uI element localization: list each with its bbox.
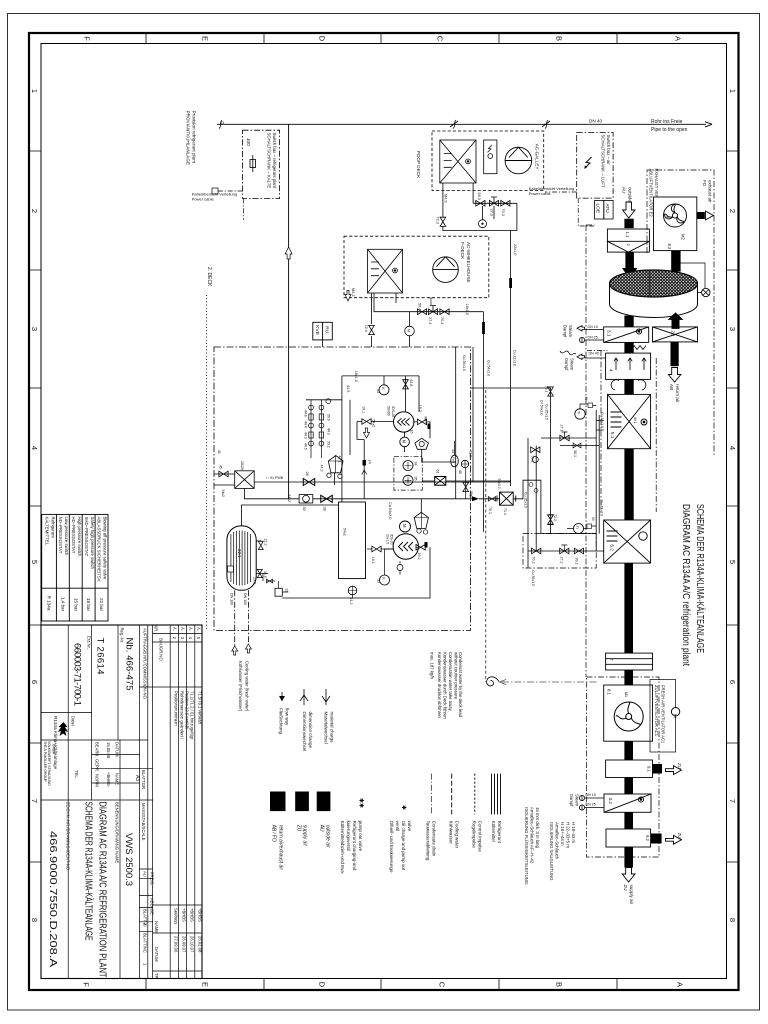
svg-text:16: 16 <box>410 430 414 434</box>
legend: cooling water dashed <box>451 774 453 815</box>
filter box 1.1 <box>607 229 649 252</box>
valve 70.3 <box>501 201 510 207</box>
valve 28 <box>303 479 315 486</box>
svg-text:8.1: 8.1 <box>607 689 612 695</box>
galley el. heater rect <box>484 140 497 174</box>
svg-text:Kältemittel: Kältemittel <box>491 821 496 842</box>
svg-text:AC-GALLEY: AC-GALLEY <box>535 144 540 170</box>
svg-text:Condensat water by the deck le: Condensat water by the deck lead <box>458 652 463 718</box>
svg-text:72.2: 72.2 <box>553 514 557 521</box>
svg-text:1: 1 <box>728 89 737 93</box>
legend: control impulse dashed <box>474 774 476 815</box>
svg-text:NAME: NAME <box>154 921 159 933</box>
svg-text:50: 50 <box>469 495 473 499</box>
svg-text:7: 7 <box>609 658 614 661</box>
5.2 feed group dash-dot boundary <box>523 534 596 569</box>
AB return hollow arrow <box>668 368 681 383</box>
svg-text:41.2: 41.2 <box>349 598 353 605</box>
svg-text:22.2: 22.2 <box>264 539 268 546</box>
svg-text:pump out valve: pump out valve <box>358 821 363 852</box>
svg-text:TI: TI <box>577 411 581 414</box>
svg-text:23.6: 23.6 <box>253 577 257 584</box>
svg-text:C: C <box>438 982 447 988</box>
duct below 2.2 <box>671 342 679 366</box>
svg-text:28: 28 <box>305 472 309 476</box>
svg-text:71.1: 71.1 <box>503 508 507 515</box>
valve 59.4 <box>417 309 426 315</box>
legend: refrigerant 4-line symbol <box>492 774 501 815</box>
svg-text:return air∕exhaust air: return air∕exhaust air <box>278 825 284 871</box>
svg-text:70.4: 70.4 <box>440 317 444 324</box>
svg-text:18x1,0: 18x1,0 <box>465 304 469 315</box>
duct 5.1 to 5.2 <box>624 449 633 520</box>
svg-text:7: 7 <box>728 799 737 803</box>
svg-text:Tauwasserableitung: Tauwasserableitung <box>426 821 431 861</box>
svg-text:15 bar: 15 bar <box>73 598 78 611</box>
svg-text:16 mm dick, 3 m lang: 16 mm dick, 3 m lang <box>535 807 540 848</box>
svg-text:5: 5 <box>30 560 39 564</box>
svg-text:SCHEMA DER R134A-KLIMA-KÄLTEAN: SCHEMA DER R134A-KLIMA-KÄLTEANLAGE <box>694 504 706 653</box>
svg-text:Cu 54x2,0: Cu 54x2,0 <box>388 502 392 519</box>
fan E2 3-blade <box>664 204 687 227</box>
svg-text:BLATT/NC: BLATT/NC <box>143 933 148 953</box>
svg-text:BEARB.: BEARB. <box>95 742 100 757</box>
pump 30 <box>299 495 313 503</box>
svg-text:72.3: 72.3 <box>436 217 440 224</box>
revision rows content <box>143 626 203 979</box>
svg-text:1.1: 1.1 <box>625 232 630 239</box>
svg-text:R 134a: R 134a <box>47 596 52 611</box>
isolation note liquid line <box>524 807 540 885</box>
steam heater 3.1 <box>604 327 649 350</box>
receiver circles dashed box <box>394 457 422 490</box>
svg-text:DN 15: DN 15 <box>586 793 596 797</box>
svg-text:50x60: 50x60 <box>387 406 391 416</box>
discharge loop no.2 <box>282 547 430 598</box>
ZU supply outlet hollow arrow <box>622 868 635 883</box>
steam flange for 4 <box>560 351 607 360</box>
gauge 41.8 <box>461 460 468 467</box>
compressor no.1 <box>394 412 414 432</box>
svg-text:30.5: 30.5 <box>263 571 267 578</box>
svg-text:Steam: Steam <box>568 325 573 338</box>
insulation tick galley line <box>509 278 512 288</box>
svg-text:✱✱: ✱✱ <box>358 798 365 808</box>
svg-text:NAME: NAME <box>115 773 120 785</box>
svg-text:AUFTRAGGB.NR./COMMISSION-NO.: AUFTRAGGB.NR./COMMISSION-NO. <box>143 628 148 700</box>
evaporator 5.2 <box>604 520 651 563</box>
valve 38 <box>321 495 333 502</box>
fan AC1 3-blade <box>614 702 643 731</box>
pressure switch table <box>42 514 108 621</box>
svg-text:3.1: 3.1 <box>607 330 612 337</box>
duct 7 to AC1 <box>624 670 633 685</box>
svg-text:26.02.08: 26.02.08 <box>197 936 202 953</box>
svg-text:A3: A3 <box>134 775 140 781</box>
lightning bolt <box>585 157 592 169</box>
svg-text:Kältemittelabzieh-und Eva-: Kältemittelabzieh-und Eva- <box>340 821 345 875</box>
valve 59.3 <box>476 201 485 207</box>
galley fan <box>505 147 532 174</box>
svg-text:44.3: 44.3 <box>327 428 331 435</box>
svg-text:HD–PRESSOSTAT: HD–PRESSOSTAT <box>71 517 76 554</box>
svg-text:27.4: 27.4 <box>428 317 432 324</box>
svg-text:19.1: 19.1 <box>362 406 366 413</box>
condenser drum hatched top <box>610 270 698 297</box>
svg-text:H 22–33+5 m: H 22–33+5 m <box>566 822 571 848</box>
heater box 9.1 <box>606 760 653 778</box>
evaporator 5.1 <box>608 394 651 448</box>
fresh air ventilator AC1 box <box>604 685 653 741</box>
svg-text:Power cable: Power cable <box>192 196 215 201</box>
svg-text:Rohrdimension geändert /: Rohrdimension geändert / <box>180 691 185 740</box>
legend: material change arrow <box>322 689 330 705</box>
svg-text:BLATTGR.: BLATTGR. <box>141 770 146 790</box>
galley pipes down <box>443 183 517 486</box>
svg-text:R134a Klima+Kälteanlage: R134a Klima+Kälteanlage <box>53 716 58 770</box>
valve 72.3 <box>440 217 446 226</box>
svg-text:Cu 35x1,5: Cu 35x1,5 <box>462 355 466 371</box>
svg-text:return air: return air <box>675 384 680 403</box>
svg-text:+BHBS: +BHBS <box>182 908 187 922</box>
svg-text:34: 34 <box>414 462 418 466</box>
svg-text:Condensate drain: Condensate drain <box>432 821 437 857</box>
svg-text:22 bar: 22 bar <box>99 598 104 611</box>
svg-text:44.1: 44.1 <box>338 456 342 463</box>
svg-text:FO: FO <box>702 180 707 187</box>
svg-text:Armaflex–Schlauch AF–H–42: Armaflex–Schlauch AF–H–42 <box>530 807 535 864</box>
svg-text:35: 35 <box>414 477 418 481</box>
svg-text:100: 100 <box>246 138 251 146</box>
steam flanges for 3.2 <box>579 795 604 810</box>
svg-text:9.1: 9.1 <box>647 766 652 772</box>
svg-text:FRESH AIR VENTILATOR AC1: FRESH AIR VENTILATOR AC1 <box>661 685 666 744</box>
svg-text:outside air: outside air <box>325 825 331 848</box>
svg-text:Steam: Steam <box>575 794 580 807</box>
svg-text:AB ∕ FO: AB ∕ FO <box>271 825 277 842</box>
heat recovery 2.2 <box>653 327 698 342</box>
steam flanges for 3.1 <box>577 326 604 343</box>
svg-text:+BHBS: +BHBS <box>190 908 195 922</box>
svg-text:TI: TI <box>575 526 579 529</box>
svg-text:44.8: 44.8 <box>409 379 413 386</box>
svg-text:Seebass: Seebass <box>173 908 178 924</box>
svg-text:M: M <box>402 440 407 444</box>
svg-text:44.2: 44.2 <box>320 465 324 472</box>
heat exchanger 71.1 <box>497 492 516 505</box>
legend: dimension change arrow <box>300 689 308 705</box>
svg-text:Pipe to the open: Pipe to the open <box>651 127 688 133</box>
insulation tick wheelhouse line <box>482 322 485 334</box>
svg-text:H 18+–44 m: H 18+–44 m <box>560 822 565 846</box>
svg-text:19.1: 19.1 <box>371 557 375 564</box>
svg-text:18x1,0: 18x1,0 <box>354 371 358 382</box>
fan box E2 <box>654 197 697 251</box>
svg-text:72.4: 72.4 <box>364 325 368 332</box>
svg-text:VWS 2500.3: VWS 2500.3 <box>123 833 134 886</box>
svg-text:72.1: 72.1 <box>544 386 548 393</box>
svg-text:28/29: 28/29 <box>240 461 244 470</box>
svg-text:26.10.07: 26.10.07 <box>190 936 195 953</box>
duct 9.1 to 3.2 <box>624 778 633 795</box>
svg-text:Cu 18x1,0: Cu 18x1,0 <box>600 500 604 516</box>
svg-text:SCHEMA DER R134A-KLIMA-KÄLTEAN: SCHEMA DER R134A-KLIMA-KÄLTEANLAGE <box>83 802 94 941</box>
main vent pipe to open <box>217 123 706 125</box>
suction accumulator 44.1 <box>311 455 321 458</box>
svg-text:27.3: 27.3 <box>490 209 494 216</box>
svg-text:8: 8 <box>728 918 737 922</box>
svg-text:M: M <box>407 329 412 332</box>
svg-text:DN 40: DN 40 <box>589 118 602 123</box>
svg-text:30: 30 <box>302 507 306 511</box>
drum gauge <box>698 292 702 294</box>
svg-text:F: F <box>83 36 92 41</box>
svg-text:MASSSTAB/SCALE: MASSSTAB/SCALE <box>141 803 146 841</box>
svg-text:70.3: 70.3 <box>501 209 505 216</box>
svg-text:1,4 bar: 1,4 bar <box>60 597 65 612</box>
svg-text:Cu 35x1,5: Cu 35x1,5 <box>524 492 528 508</box>
svg-text:Dampf: Dampf <box>564 358 569 371</box>
svg-text:2: 2 <box>728 209 737 213</box>
svg-text:AB: AB <box>669 384 674 390</box>
svg-text:GEPR.: GEPR. <box>95 759 100 772</box>
svg-text:E: E <box>201 36 210 41</box>
5.2 feed valves <box>528 550 604 552</box>
svg-text:✱: ✱ <box>400 805 407 810</box>
svg-text:1: 1 <box>30 89 39 93</box>
svg-text:38.1: 38.1 <box>573 450 577 457</box>
svg-text:5.2: 5.2 <box>610 544 615 551</box>
svg-text:660003-71-700-1: 660003-71-700-1 <box>72 643 83 706</box>
svg-text:H 18–33 m: H 18–33 m <box>571 822 576 843</box>
valve 19.1 no.2 <box>372 546 381 552</box>
svg-text:supply air: supply air <box>629 885 634 905</box>
legend: ZU black bar <box>295 792 309 812</box>
svg-text:ZULUFTVENTILATOR AC1: ZULUFTVENTILATOR AC1 <box>654 685 659 737</box>
svg-text:5: 5 <box>728 560 737 564</box>
border grid letters bottom <box>82 982 685 988</box>
svg-text:M4.9: M4.9 <box>444 194 448 202</box>
AC-WHEELHOUSE dashed unit box <box>344 236 489 298</box>
svg-text:DIAGRAM AC R134A A/C REFRIGERA: DIAGRAM AC R134A A/C REFRIGERATION PLANT <box>97 802 108 978</box>
oil gauge below compressor 2 <box>397 565 403 571</box>
valve 27.3 <box>489 201 498 207</box>
svg-text:DN 15: DN 15 <box>588 325 598 329</box>
svg-text:M1: M1 <box>624 692 628 697</box>
svg-text:D: D <box>318 36 327 42</box>
heat exchanger 28/29 <box>214 471 254 489</box>
svg-text:27.09.06: 27.09.06 <box>173 936 178 953</box>
condensate S-trap curl <box>487 677 499 686</box>
svg-text:ABLASSDRUCK SICHERHEITSV.: ABLASSDRUCK SICHERHEITSV. <box>97 517 102 583</box>
dash-dot enclosure AC1..9.2 <box>587 677 660 857</box>
svg-text:KÄLTEMITTEL: KÄLTEMITTEL <box>45 517 50 546</box>
svg-text:DN 40: DN 40 <box>589 352 599 356</box>
LOE ATU boxes <box>595 201 614 220</box>
svg-text:Regelimpulse: Regelimpulse <box>472 821 477 849</box>
svg-text:15.05.08: 15.05.08 <box>106 742 111 759</box>
liquid main line <box>244 488 499 498</box>
gauge 41.2 <box>348 586 357 595</box>
svg-text:kuierungsventil: kuierungsventil <box>346 821 351 851</box>
svg-text:9.2: 9.2 <box>645 835 650 841</box>
svg-text:Armaflex–Schlauch: Armaflex–Schlauch <box>555 822 560 860</box>
svg-text:Switch box – air: Switch box – air <box>606 135 611 166</box>
svg-text:M2: M2 <box>681 234 686 240</box>
steam heater 3.2 <box>604 794 651 812</box>
suction main line <box>254 481 510 483</box>
title block outer box <box>41 625 202 979</box>
svg-text:TP: TP <box>154 973 159 979</box>
svg-text:THE A.P.MOLLER GROUP: THE A.P.MOLLER GROUP <box>43 741 47 783</box>
svg-text:71.1/71.2 / 61 hinzugefügt: 71.1/71.2 / 61 hinzugefügt <box>190 691 195 740</box>
suction accumulator no.2 <box>414 512 428 528</box>
svg-text:M 1: M 1 <box>633 418 637 424</box>
galley heat exchanger <box>440 140 476 183</box>
svg-text:Ölfuell- und Evakuierungs-: Ölfuell- und Evakuierungs- <box>389 821 395 875</box>
legend: flow direction arrow <box>280 692 285 701</box>
isolation note suction line <box>549 822 576 881</box>
condenser drum body <box>610 284 698 318</box>
svg-text:7: 7 <box>30 799 39 803</box>
svg-text:Ä.: Ä. <box>180 627 185 631</box>
svg-text:+BHBS: +BHBS <box>197 908 202 922</box>
svg-text:A: A <box>676 982 685 987</box>
svg-text:3.2: 3.2 <box>608 798 613 805</box>
valve 22.2 <box>258 541 263 549</box>
svg-text:DATUM: DATUM <box>115 742 120 757</box>
svg-text:Kondenswasser durch Deck führe: Kondenswasser durch Deck führen <box>443 652 448 719</box>
svg-text:59.6: 59.6 <box>327 414 331 421</box>
svg-text:54x2: 54x2 <box>343 528 347 536</box>
legend: condensate drain dash-dot <box>430 774 432 815</box>
svg-text:D: D <box>318 982 327 988</box>
svg-text:Cu 35x1,5: Cu 35x1,5 <box>531 570 535 586</box>
svg-text:2. DECK: 2. DECK <box>206 267 212 287</box>
service valve chains <box>309 399 331 455</box>
compressor no.2 <box>393 534 418 559</box>
svg-text:B: B <box>555 36 564 41</box>
ZULUFTVENTILATOR label box <box>650 680 676 752</box>
motor M no.1 <box>400 437 410 447</box>
svg-text:AU: AU <box>622 187 627 193</box>
svg-text:8.2: 8.2 <box>667 244 672 250</box>
svg-text:6: 6 <box>30 680 39 684</box>
svg-text:19.2: 19.2 <box>418 405 422 412</box>
shutoff 61 <box>422 480 510 482</box>
condensate note <box>430 652 464 719</box>
svg-text:6: 6 <box>728 680 737 684</box>
svg-text:DN 25: DN 25 <box>588 336 598 340</box>
motor M for AC1 <box>671 708 679 716</box>
duct drum to 3.1 <box>624 316 633 327</box>
svg-text:41.8: 41.8 <box>469 450 473 457</box>
svg-text:44.4: 44.4 <box>304 421 308 428</box>
svg-text:19.2: 19.2 <box>417 553 421 560</box>
svg-text:71.5/70.1 versetzt: 71.5/70.1 versetzt <box>197 691 202 725</box>
suction valve 19.1 no.1 <box>362 419 371 425</box>
line with valve 72.1 <box>471 388 551 534</box>
svg-text:27.1: 27.1 <box>560 425 564 432</box>
svg-text:Switch box – refrigerant plant: Switch box – refrigerant plant <box>272 133 277 189</box>
svg-text:/DS-20: /DS-20 <box>390 534 394 545</box>
svg-text:32: 32 <box>376 389 380 393</box>
svg-text:ZEICHN.-NR./DRAWING-IDENT-NO.: ZEICHN.-NR./DRAWING-IDENT-NO. <box>66 802 71 871</box>
svg-text:SCHALTSCHRANK – KÄLTE: SCHALTSCHRANK – KÄLTE <box>267 133 272 189</box>
svg-text:Position 22.5 entfällt: Position 22.5 entfällt <box>185 691 190 730</box>
wheelhouse heat exchanger <box>368 249 403 293</box>
svg-text:5.1: 5.1 <box>610 432 615 439</box>
border grid numbers right <box>728 89 737 922</box>
svg-text:ZU: ZU <box>296 825 302 832</box>
oil separator no.1 <box>415 438 429 449</box>
svg-text:54x2: 54x2 <box>287 495 291 502</box>
pipes upper <box>306 376 456 515</box>
svg-text:flow way: flow way <box>285 708 290 726</box>
svg-text:Materialwechsel: Materialwechsel <box>324 712 329 744</box>
switch box refrigerant (dash-dot) <box>243 130 280 198</box>
svg-text:39.2: 39.2 <box>575 558 579 565</box>
svg-text:54x2: 54x2 <box>372 420 376 428</box>
svg-text:AU: AU <box>319 825 325 832</box>
svg-text:without counter pressure: without counter pressure <box>454 652 459 700</box>
svg-text:A: A <box>674 36 683 41</box>
ZU stub right of 9.1 <box>653 764 663 774</box>
legend: AU black bar <box>317 792 331 812</box>
silencer 7 <box>606 653 653 670</box>
svg-text:4: 4 <box>609 369 614 372</box>
svg-text:70.2: 70.2 <box>532 557 536 564</box>
svg-text:Cooling water (fresh water): Cooling water (fresh water) <box>245 661 250 712</box>
svg-text:LOE: LOE <box>595 204 601 214</box>
svg-text:27.2: 27.2 <box>560 557 564 564</box>
valve 44.8 <box>403 380 409 389</box>
svg-text:Ä.: Ä. <box>196 627 201 631</box>
duct AU inlet <box>624 219 633 228</box>
svg-text:+BHBS-: +BHBS- <box>106 772 111 788</box>
svg-text:exhaust air: exhaust air <box>708 180 713 203</box>
svg-text:T 26614: T 26614 <box>95 638 106 675</box>
svg-text:ISOLIERUNG SAUGLEITUNG: ISOLIERUNG SAUGLEITUNG <box>549 822 554 881</box>
cooling water pipes DN100 <box>234 590 236 646</box>
fuse symbol <box>250 160 256 168</box>
svg-text:⇦ 91 PWB: ⇦ 91 PWB <box>266 476 284 480</box>
AC-GALLEY dashed unit box <box>432 131 544 191</box>
svg-text:E: E <box>201 982 210 987</box>
svg-text:/DS-20: /DS-20 <box>391 406 395 417</box>
duct arrow into condenser drum <box>625 253 634 270</box>
svg-text:DN 100: DN 100 <box>243 593 247 605</box>
duct 5.2 to 7 <box>624 563 633 653</box>
svg-text:44.5: 44.5 <box>304 443 308 450</box>
svg-text:22.1: 22.1 <box>237 549 242 558</box>
svg-text:48: 48 <box>458 470 462 474</box>
svg-text:3: 3 <box>30 327 39 331</box>
valve 72.4 <box>369 325 375 334</box>
duct AC1 to 9.1 <box>624 741 633 760</box>
svg-text:4: 4 <box>30 446 39 450</box>
discharge valve 19.2 no.1 <box>417 419 426 425</box>
svg-text:FREIG.: FREIG. <box>150 872 155 886</box>
svg-text:High pressure switch: High pressure switch <box>77 517 82 557</box>
duct 4 to 5.1 <box>624 379 633 394</box>
valve 23.6 <box>257 569 262 577</box>
svg-text:Dampf: Dampf <box>569 794 574 807</box>
svg-text:3: 3 <box>728 327 737 331</box>
svg-text:Or 54x2,0: Or 54x2,0 <box>540 400 544 415</box>
svg-text:Cu 35x1,5: Cu 35x1,5 <box>545 404 549 420</box>
condensate trap curls below 4 <box>611 380 646 390</box>
